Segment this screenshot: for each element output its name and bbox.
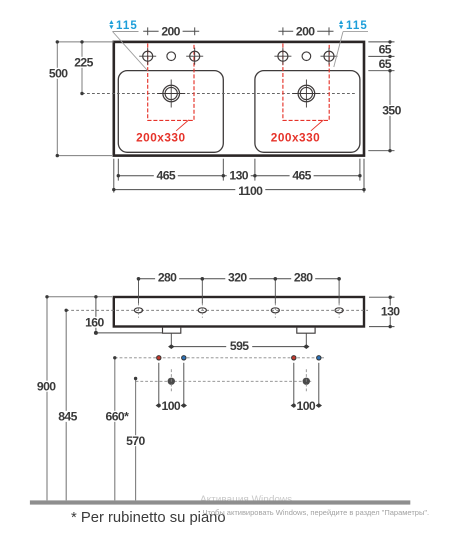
svg-text:500: 500 [49,67,68,81]
svg-text:200x330: 200x330 [136,130,185,144]
svg-text:Чтобы активировать Windows, пе: Чтобы активировать Windows, перейдите в … [203,508,430,517]
svg-text:200: 200 [296,25,315,39]
svg-text:130: 130 [381,304,400,318]
svg-text:115: 115 [346,20,368,32]
svg-text:200: 200 [161,25,180,39]
svg-text:65: 65 [379,57,392,71]
svg-text:200x330: 200x330 [271,130,320,144]
svg-text:100: 100 [297,399,316,413]
svg-text:280: 280 [158,271,177,285]
svg-text:65: 65 [379,43,392,57]
svg-text:350: 350 [382,104,401,118]
svg-text:465: 465 [292,169,311,183]
svg-text:115: 115 [116,20,138,32]
svg-text:900: 900 [37,380,56,394]
svg-text:130: 130 [229,169,248,183]
svg-text:1100: 1100 [238,184,263,198]
svg-text:595: 595 [230,339,249,353]
svg-text:845: 845 [58,410,77,424]
svg-text:570: 570 [126,434,145,448]
svg-text:320: 320 [228,271,247,285]
svg-text:225: 225 [74,56,93,70]
svg-text:160: 160 [85,316,104,330]
svg-text:465: 465 [157,169,176,183]
svg-text:100: 100 [162,399,181,413]
svg-text:280: 280 [294,271,313,285]
svg-text:660*: 660* [106,410,130,424]
